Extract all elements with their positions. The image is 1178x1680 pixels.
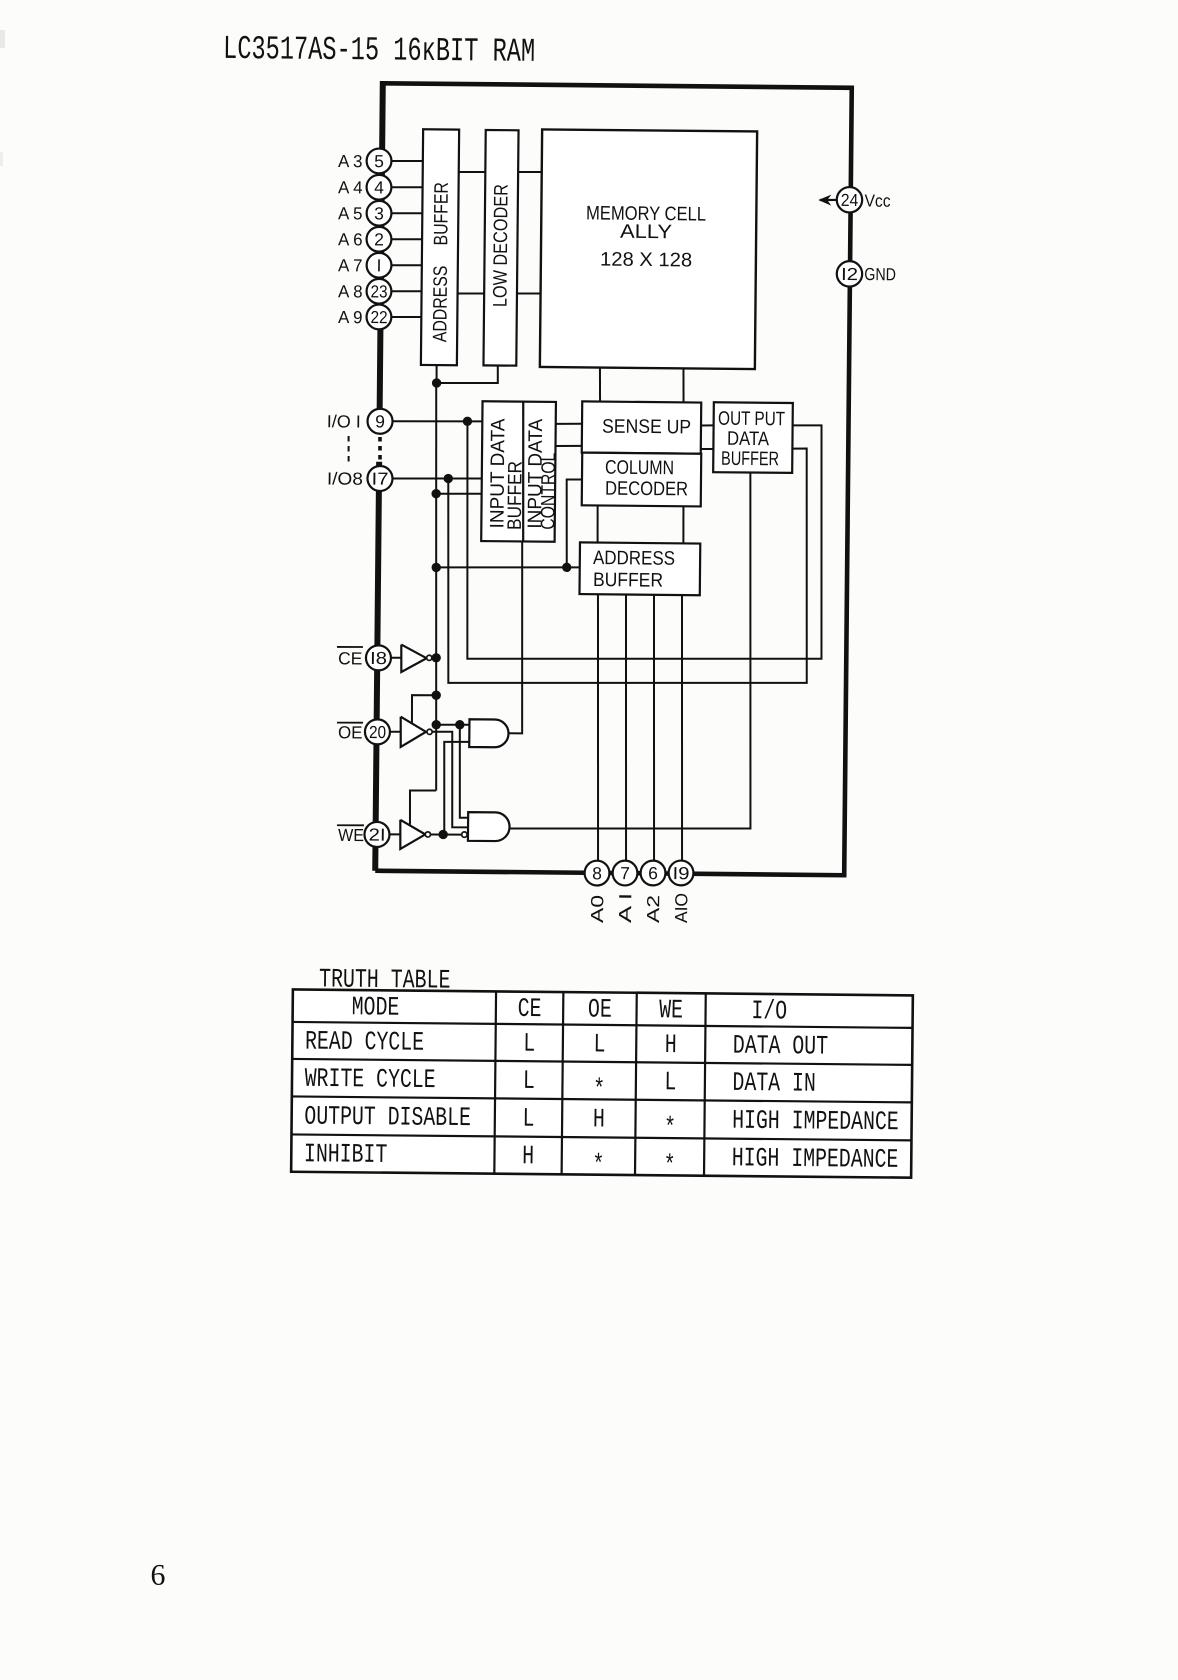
truth table r4c2 [592, 1151, 604, 1181]
svg-text:I8: I8 [370, 648, 387, 668]
pin 9 (I/O1) [367, 409, 392, 434]
wire sense to output buffer (bottom) [701, 448, 714, 450]
svg-text:6: 6 [150, 1559, 165, 1592]
dashed ellipsis between I/O pins (thick) [378, 437, 382, 464]
svg-text:CE: CE [518, 995, 542, 1025]
block MEMORY CELL ARRAY [540, 129, 757, 369]
pin I9 (bottom) [668, 860, 693, 885]
wire OE pin to inverter [390, 731, 401, 733]
truth table r0c2 [588, 996, 612, 1026]
svg-text:OE: OE [338, 722, 363, 742]
truth table outer border [291, 989, 913, 1177]
bubble WE gate lower input [462, 832, 467, 837]
svg-text:A 6: A 6 [338, 229, 363, 249]
svg-text:SENSE UP: SENSE UP [602, 416, 691, 439]
svg-text:5: 5 [374, 151, 384, 171]
svg-text:8: 8 [592, 863, 602, 883]
truth table r2c1 [523, 1067, 535, 1097]
truth table r3c1 [522, 1105, 534, 1135]
svg-text:Vᴄᴄ: Vᴄᴄ [864, 191, 890, 211]
label WE with overline [337, 825, 364, 845]
wire stub pin 2 to address buffer [391, 238, 422, 241]
gate WE AND [468, 812, 510, 841]
junction dot column addr [562, 563, 571, 572]
junction dot OE gate upper input [455, 720, 464, 729]
pin 8 (bottom) [584, 861, 609, 886]
svg-text:24: 24 [841, 190, 859, 210]
svg-text:I: I [377, 255, 382, 275]
truth table header I/O [751, 997, 787, 1027]
pin 24 (Vcc) [837, 187, 863, 213]
truth table r4c3 [664, 1152, 676, 1182]
label BUFFER (column) [593, 569, 663, 592]
wire I/O1 to input data buffer [393, 420, 482, 422]
svg-text:GND: GND [864, 264, 896, 284]
truth table title [319, 965, 451, 996]
title text LC3517AS-15 16KBIT RAM [223, 31, 535, 72]
pin 6 (bottom) [640, 860, 665, 885]
wire WE net to OE gate lower input [443, 742, 469, 835]
svg-text:READ CYCLE: READ CYCLE [305, 1028, 424, 1059]
pin 23 (A8) [366, 279, 391, 304]
label AIO [671, 893, 691, 923]
label A7 [338, 255, 363, 275]
svg-text:OUTPUT DISABLE: OUTPUT DISABLE [304, 1103, 471, 1135]
label A8 [338, 281, 363, 301]
wire address buffer to pin I9 [679, 595, 684, 860]
wire WE bubble to gate [430, 833, 461, 836]
svg-text:4: 4 [374, 177, 384, 197]
scan smudge left edge [0, 30, 5, 166]
label OUT PUT [718, 408, 785, 431]
block INPUT DATA BUFFER / CONTROL [481, 401, 556, 541]
svg-text:CE: CE [338, 648, 363, 668]
block SENSE UP [582, 401, 701, 453]
truth table column line [562, 992, 564, 1174]
svg-text:A 9: A 9 [338, 307, 363, 327]
truth table row 1 io [733, 1032, 828, 1063]
label A0 [587, 895, 607, 924]
truth table row 4 mode [304, 1140, 388, 1171]
svg-text:*: * [593, 1076, 605, 1106]
junction dot A y658 [431, 653, 440, 662]
wire I/O1 feedback loop [465, 421, 824, 662]
wire bar address buffer to low decoder (bottom) [458, 292, 485, 295]
label SENSE UP [602, 416, 691, 439]
pin 20 (OE) [365, 719, 390, 744]
svg-text:ADDRESS BUFFER: ADDRESS BUFFER [429, 182, 453, 342]
label DATA (output) [727, 428, 770, 450]
truth table row 2 io [732, 1069, 816, 1100]
truth table r3c3 [664, 1114, 676, 1144]
label GND [864, 264, 896, 284]
wire column decoder to address buffer (right) [682, 506, 685, 543]
wire jog to column decoder [566, 479, 582, 567]
svg-text:BUFFER: BUFFER [721, 448, 779, 471]
label AI [615, 893, 635, 923]
svg-text:*: * [664, 1114, 676, 1144]
wire address buffer to pin 6 [651, 595, 656, 860]
svg-text:6: 6 [648, 863, 658, 883]
svg-text:I/O I: I/O I [327, 411, 361, 431]
wire CE pin to inverter [391, 657, 401, 659]
wire junction into address buffer [567, 566, 580, 568]
pin 5 (A3) [367, 148, 392, 173]
svg-text:*: * [664, 1152, 676, 1182]
gate OE AND [469, 719, 508, 747]
truth table row 3 io [732, 1107, 899, 1139]
wire input control to sense (bottom) [555, 445, 582, 448]
wire OE bubble to WE gate mid input [431, 732, 469, 828]
left border heavy pin column [375, 81, 383, 871]
wire input control to sense (top) [555, 423, 582, 426]
pin 12 (GND) [837, 261, 863, 287]
wire low decoder bottom jog [437, 365, 498, 384]
wire memory bottom to sense amp (right) [682, 368, 685, 402]
svg-text:L: L [523, 1030, 535, 1060]
pin 4 (A4) [366, 175, 391, 200]
svg-text:128 X 128: 128 X 128 [600, 249, 692, 272]
junction dot A y724 [431, 720, 440, 729]
svg-text:A2: A2 [643, 895, 663, 923]
truth table row line [292, 1059, 912, 1065]
inverter CE triangle [401, 645, 427, 673]
label OE with overline [337, 722, 363, 742]
svg-text:OE: OE [588, 996, 612, 1026]
label BUFFER (output) [721, 448, 779, 471]
svg-text:I/O: I/O [751, 997, 787, 1027]
svg-text:H: H [522, 1142, 534, 1172]
label Vcc [864, 191, 890, 211]
wire address buffer bottom to junction [435, 365, 437, 383]
wire A end to WE triangle [410, 790, 437, 824]
junction dot A y695 [431, 690, 440, 699]
wire vertical A (CE net) [432, 383, 440, 791]
wire OE gate output to input control [508, 541, 524, 733]
block ADDRESS BUFFER (row) [421, 129, 459, 365]
truth table row line [291, 1134, 911, 1140]
junction dot under address buffer [432, 378, 441, 387]
label INPUT DATA (control) [524, 418, 547, 529]
junction dot A y567 [431, 563, 440, 572]
truth table row 3 mode [304, 1103, 471, 1135]
svg-text:DECODER: DECODER [605, 478, 688, 501]
truth table column line [635, 993, 637, 1175]
svg-text:9: 9 [375, 411, 385, 431]
svg-text:BUFFER: BUFFER [593, 569, 663, 592]
wire stub pin 22 to address buffer [391, 316, 422, 319]
wire I/O8 feedback loop [446, 445, 809, 686]
svg-text:*: * [592, 1151, 604, 1181]
pin 7 (bottom) [612, 861, 637, 886]
svg-text:LC3517AS-15 16ĸBIT RAM: LC3517AS-15 16ĸBIT RAM [223, 31, 535, 72]
wire memory bottom to sense amp (left) [599, 368, 602, 402]
truth table column line [494, 991, 496, 1173]
junction dot on I/O8 line [444, 474, 453, 483]
inverter WE bubble [425, 832, 430, 837]
svg-text:ALLY: ALLY [620, 221, 672, 243]
junction dot A y493 [431, 489, 440, 498]
wire stub pin 3 to address buffer [392, 212, 423, 215]
block ADDRESS BUFFER (column) [579, 542, 700, 595]
divider input buffer/control [522, 402, 525, 542]
label ALLY [620, 221, 672, 243]
label A4 [338, 177, 363, 197]
truth table row 4 io [732, 1144, 899, 1176]
svg-text:20: 20 [369, 722, 386, 742]
svg-text:3: 3 [374, 203, 384, 223]
svg-text:H: H [665, 1031, 677, 1061]
label LOW DECODER [489, 184, 512, 307]
Vcc arrow [818, 194, 839, 205]
svg-text:22: 22 [370, 307, 387, 327]
svg-text:A 8: A 8 [338, 281, 363, 301]
label COLUMN [605, 457, 674, 480]
inverter OE bubble [427, 729, 432, 734]
label DECODER [605, 478, 688, 501]
label 128 X 128 [600, 249, 692, 272]
svg-text:HIGH IMPEDANCE: HIGH IMPEDANCE [732, 1107, 899, 1139]
wire A to input buffer [436, 492, 482, 495]
label I/O1 [327, 411, 361, 431]
svg-text:INHIBIT: INHIBIT [304, 1140, 388, 1171]
truth table r0c1 [518, 995, 542, 1025]
label ADDRESS BUFFER (row) [429, 182, 453, 342]
pin 2 (A6) [366, 227, 391, 252]
wire stub pin 5 to address buffer [392, 160, 423, 163]
wire CE bubble to A [432, 657, 436, 659]
svg-text:I9: I9 [672, 863, 689, 883]
pin 17 (I/O8) [367, 466, 392, 491]
block LOW DECODER [483, 130, 518, 366]
svg-text:HIGH IMPEDANCE: HIGH IMPEDANCE [732, 1144, 899, 1176]
label INPUT DATA (buffer) [486, 417, 509, 528]
truth table row line [293, 1022, 913, 1028]
svg-text:DATA IN: DATA IN [732, 1069, 816, 1100]
label A2 [643, 895, 663, 923]
svg-text:MODE: MODE [352, 993, 400, 1023]
truth table column line [704, 993, 706, 1175]
truth table r0c3 [659, 996, 683, 1026]
label CE with overline [337, 647, 363, 669]
truth table r4c1 [522, 1142, 534, 1172]
pin 18 (CE) [366, 645, 391, 670]
pin 3 (A5) [367, 201, 392, 226]
svg-text:23: 23 [370, 281, 387, 301]
svg-text:H: H [593, 1105, 605, 1135]
svg-text:DATA OUT: DATA OUT [733, 1032, 828, 1063]
svg-text:A0: A0 [587, 895, 607, 924]
svg-text:I2: I2 [841, 264, 858, 284]
svg-text:ADDRESS: ADDRESS [593, 547, 675, 570]
truth table row 1 mode [305, 1028, 424, 1059]
page number 6 [150, 1559, 165, 1592]
label MEMORY CELL [586, 202, 706, 225]
truth table r2c2 [593, 1076, 605, 1106]
inverter CE bubble [427, 655, 432, 660]
label I/O8 [327, 468, 363, 488]
outer box border [375, 83, 852, 875]
svg-text:AIO: AIO [671, 893, 691, 923]
svg-text:WRITE CYCLE: WRITE CYCLE [305, 1065, 436, 1096]
svg-text:LOW DECODER: LOW DECODER [489, 184, 512, 307]
junction dot WE net [438, 830, 447, 839]
wire bar address buffer to low decoder (top) [458, 171, 485, 174]
wire address buffer to pin 7 [623, 595, 628, 860]
dashed ellipsis beside I/O labels (thin) [347, 436, 350, 465]
truth table r1c1 [523, 1030, 535, 1060]
svg-text:7: 7 [620, 863, 630, 883]
label A3 [338, 151, 363, 171]
svg-text:CONTROL: CONTROL [537, 453, 560, 530]
wire WE pin to inverter [389, 833, 400, 835]
svg-text:L: L [522, 1105, 534, 1135]
wire A to column address buffer [436, 566, 567, 569]
svg-text:COLUMN: COLUMN [605, 457, 674, 480]
label A6 [338, 229, 363, 249]
svg-text:L: L [523, 1067, 535, 1097]
inverter OE triangle [400, 717, 426, 748]
block COLUMN DECODER [582, 453, 702, 507]
wire I/O8 to input data buffer [392, 478, 481, 480]
pin 22 (A9) [366, 304, 391, 329]
inverter WE triangle [400, 820, 425, 849]
wire stub pin I to address buffer [392, 264, 423, 267]
label ADDRESS (column) [593, 547, 675, 570]
svg-text:WE: WE [338, 825, 364, 845]
svg-text:DATA: DATA [727, 428, 770, 450]
wire stub pin 4 to address buffer [391, 186, 422, 189]
wire sense to output buffer (top) [701, 424, 714, 426]
pin 21 (WE) [364, 822, 389, 847]
label BUFFER (input) [504, 461, 527, 530]
svg-text:A 4: A 4 [338, 177, 363, 197]
wire bar low decoder to memory (bottom) [517, 292, 541, 294]
label A9 [338, 307, 363, 327]
svg-text:A 7: A 7 [338, 255, 363, 275]
svg-text:A I: A I [615, 893, 635, 923]
svg-text:2: 2 [374, 229, 384, 249]
pin I (A7) [367, 253, 392, 278]
truth table r1c2 [593, 1030, 605, 1060]
wire bar low decoder to memory (top) [517, 171, 541, 173]
label A5 [338, 203, 363, 223]
svg-text:L: L [664, 1068, 676, 1098]
label CONTROL (input) [537, 453, 560, 530]
truth table row 2 mode [305, 1065, 436, 1096]
wire WE gate output to output buffer [509, 470, 753, 831]
junction dot on I/O1 line [463, 417, 472, 426]
svg-text:A 3: A 3 [338, 151, 363, 171]
truth table row line [292, 1096, 912, 1102]
svg-text:A 5: A 5 [338, 203, 363, 223]
svg-text:I7: I7 [371, 469, 388, 489]
wire A to OE gate upper input [436, 723, 469, 726]
block OUTPUT DATA BUFFER [713, 402, 793, 473]
wire A branch to OE triangle [412, 695, 436, 723]
svg-text:2I: 2I [368, 825, 385, 845]
wire column decoder to address buffer (left) [596, 506, 599, 543]
svg-text:L: L [593, 1030, 605, 1060]
truth table r2c3 [664, 1068, 676, 1098]
truth table header MODE [352, 993, 400, 1023]
wire OE gate upper input drop to WE gate [459, 725, 469, 818]
wire address buffer to pin 8 [595, 595, 600, 860]
svg-text:WE: WE [659, 996, 683, 1026]
truth table r3c2 [593, 1105, 605, 1135]
wire stub pin 23 to address buffer [391, 290, 422, 293]
truth table r1c3 [665, 1031, 677, 1061]
svg-text:I/O8: I/O8 [327, 468, 363, 488]
